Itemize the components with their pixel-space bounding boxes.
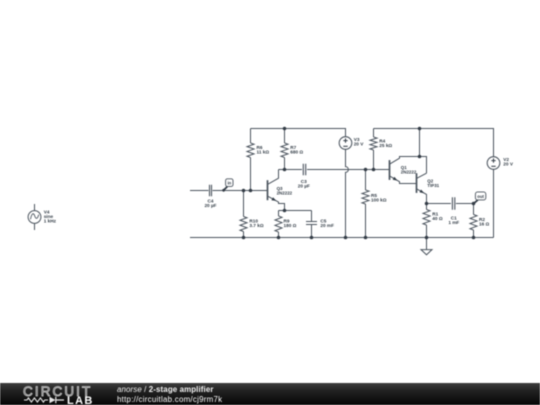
transistor Q3 2N2222 [268,170,293,211]
voltage source V4 sine 1kHz [28,204,57,230]
junction R10 ground rail [242,236,246,240]
transistor Q1 2N2222 [390,157,427,184]
svg-text:R216 Ω: R216 Ω [479,217,490,227]
junction R5/signal node [364,168,368,172]
junction R6/base node [249,189,253,193]
junction collector bus riser [418,155,422,159]
wire emitter node stage 1 [279,210,312,212]
logo resistor + diode glyph [24,396,69,404]
junction R7 top rail [283,127,287,131]
wire output node Q2 emitter to C1 to out [427,203,474,205]
CircuitLab logo wordmark [23,384,92,399]
junction riser top rail [418,127,422,131]
transistor Q2 TIP31 [417,173,440,203]
svg-text:C520 mF: C520 mF [320,218,334,228]
resistor R4 25k [370,129,377,170]
svg-text:R103.7 kΩ: R103.7 kΩ [249,218,263,228]
capacitor C3 20uF [298,164,310,189]
wire input horizontal (net in) [190,190,268,192]
junction R5 ground rail [364,236,368,240]
resistor R6 11k [247,129,254,191]
junction Q3 emitter node [283,209,287,213]
resistor R1 40 [423,204,430,238]
resistor R7 680 [281,143,288,170]
svg-text:V220 V: V220 V [503,157,514,167]
resistor R10 3.7k [240,191,247,238]
svg-text:C420 µF: C420 µF [204,199,216,209]
svg-text:R611 kΩ: R611 kΩ [257,145,270,155]
junction R2 out node [472,202,476,206]
svg-text:Q2TIP31: Q2TIP31 [427,179,439,189]
junction Q2 emitter/R1 out node [425,202,429,206]
svg-text:R5100 kΩ: R5100 kΩ [371,193,387,203]
logo LAB text [67,395,94,405]
svg-text:C11 mF: C11 mF [448,215,459,225]
wire collector stage 1 to C3 to Q1 base, hop over V3 [279,169,390,171]
footer url line [117,395,222,404]
resistor R2 16 [470,204,477,238]
junction V3 ground rail [344,236,348,240]
svg-text:V320 V: V320 V [354,137,365,147]
wire V3 vertical to bottom rail [346,149,349,237]
svg-text:R140 Ω: R140 Ω [432,211,443,221]
junction R2 ground rail [472,236,476,240]
svg-text:out: out [477,194,484,199]
footer title line [117,385,214,394]
capacitor C4 20uF [204,185,216,208]
svg-text:C320 µF: C320 µF [298,179,310,189]
resistor R5 100k [362,170,369,238]
svg-text:Q32N2222: Q32N2222 [277,186,293,196]
voltage source V2 20V [487,157,514,170]
footer bar [0,383,540,405]
svg-text:R7680 Ω: R7680 Ω [290,145,303,155]
wire bottom rail [190,237,494,239]
capacitor C1 1mF [448,197,459,225]
junction R10/base node [242,189,246,193]
capacitor C5 20mF horizontal plates [306,211,334,238]
junction R9 ground rail [277,236,281,240]
wire top rail stage 1 (V3 positive) [251,129,346,137]
junction R4/signal node [372,168,376,172]
node in label [222,179,233,192]
junction C5 ground rail [310,236,314,240]
wire V2 vertical to bottom rail [493,169,495,237]
svg-text:Q12N2222: Q12N2222 [401,165,417,175]
voltage source V3 20V [339,137,364,150]
junction R7/collector node [283,168,287,172]
svg-text:R425 kΩ: R425 kΩ [379,139,392,149]
wire Q1/Q2 collector riser to top rail [419,129,421,157]
svg-text:V4sine1 kHz: V4sine1 kHz [44,210,57,224]
wire R7 branch vertical [284,129,286,144]
resistor R9 180 [275,211,282,238]
wire top rail stage 2 (V2 positive) [374,129,494,157]
junction R1/ground symbol rail [425,236,429,240]
svg-text:R9180 Ω: R9180 Ω [284,218,297,228]
ground [421,238,432,255]
svg-text:in: in [227,180,231,185]
node out label [474,192,486,204]
